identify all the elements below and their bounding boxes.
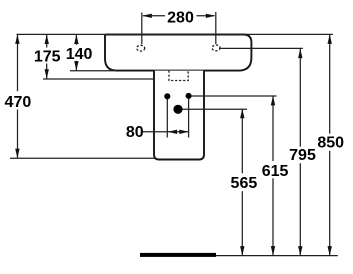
svg-text:795: 795 [289, 147, 316, 164]
svg-text:565: 565 [231, 175, 258, 192]
svg-text:615: 615 [262, 163, 289, 180]
svg-text:280: 280 [167, 9, 194, 26]
svg-text:850: 850 [317, 135, 344, 152]
svg-text:470: 470 [5, 94, 32, 111]
svg-text:175: 175 [34, 49, 61, 66]
svg-text:140: 140 [66, 46, 93, 63]
svg-text:80: 80 [126, 124, 144, 141]
